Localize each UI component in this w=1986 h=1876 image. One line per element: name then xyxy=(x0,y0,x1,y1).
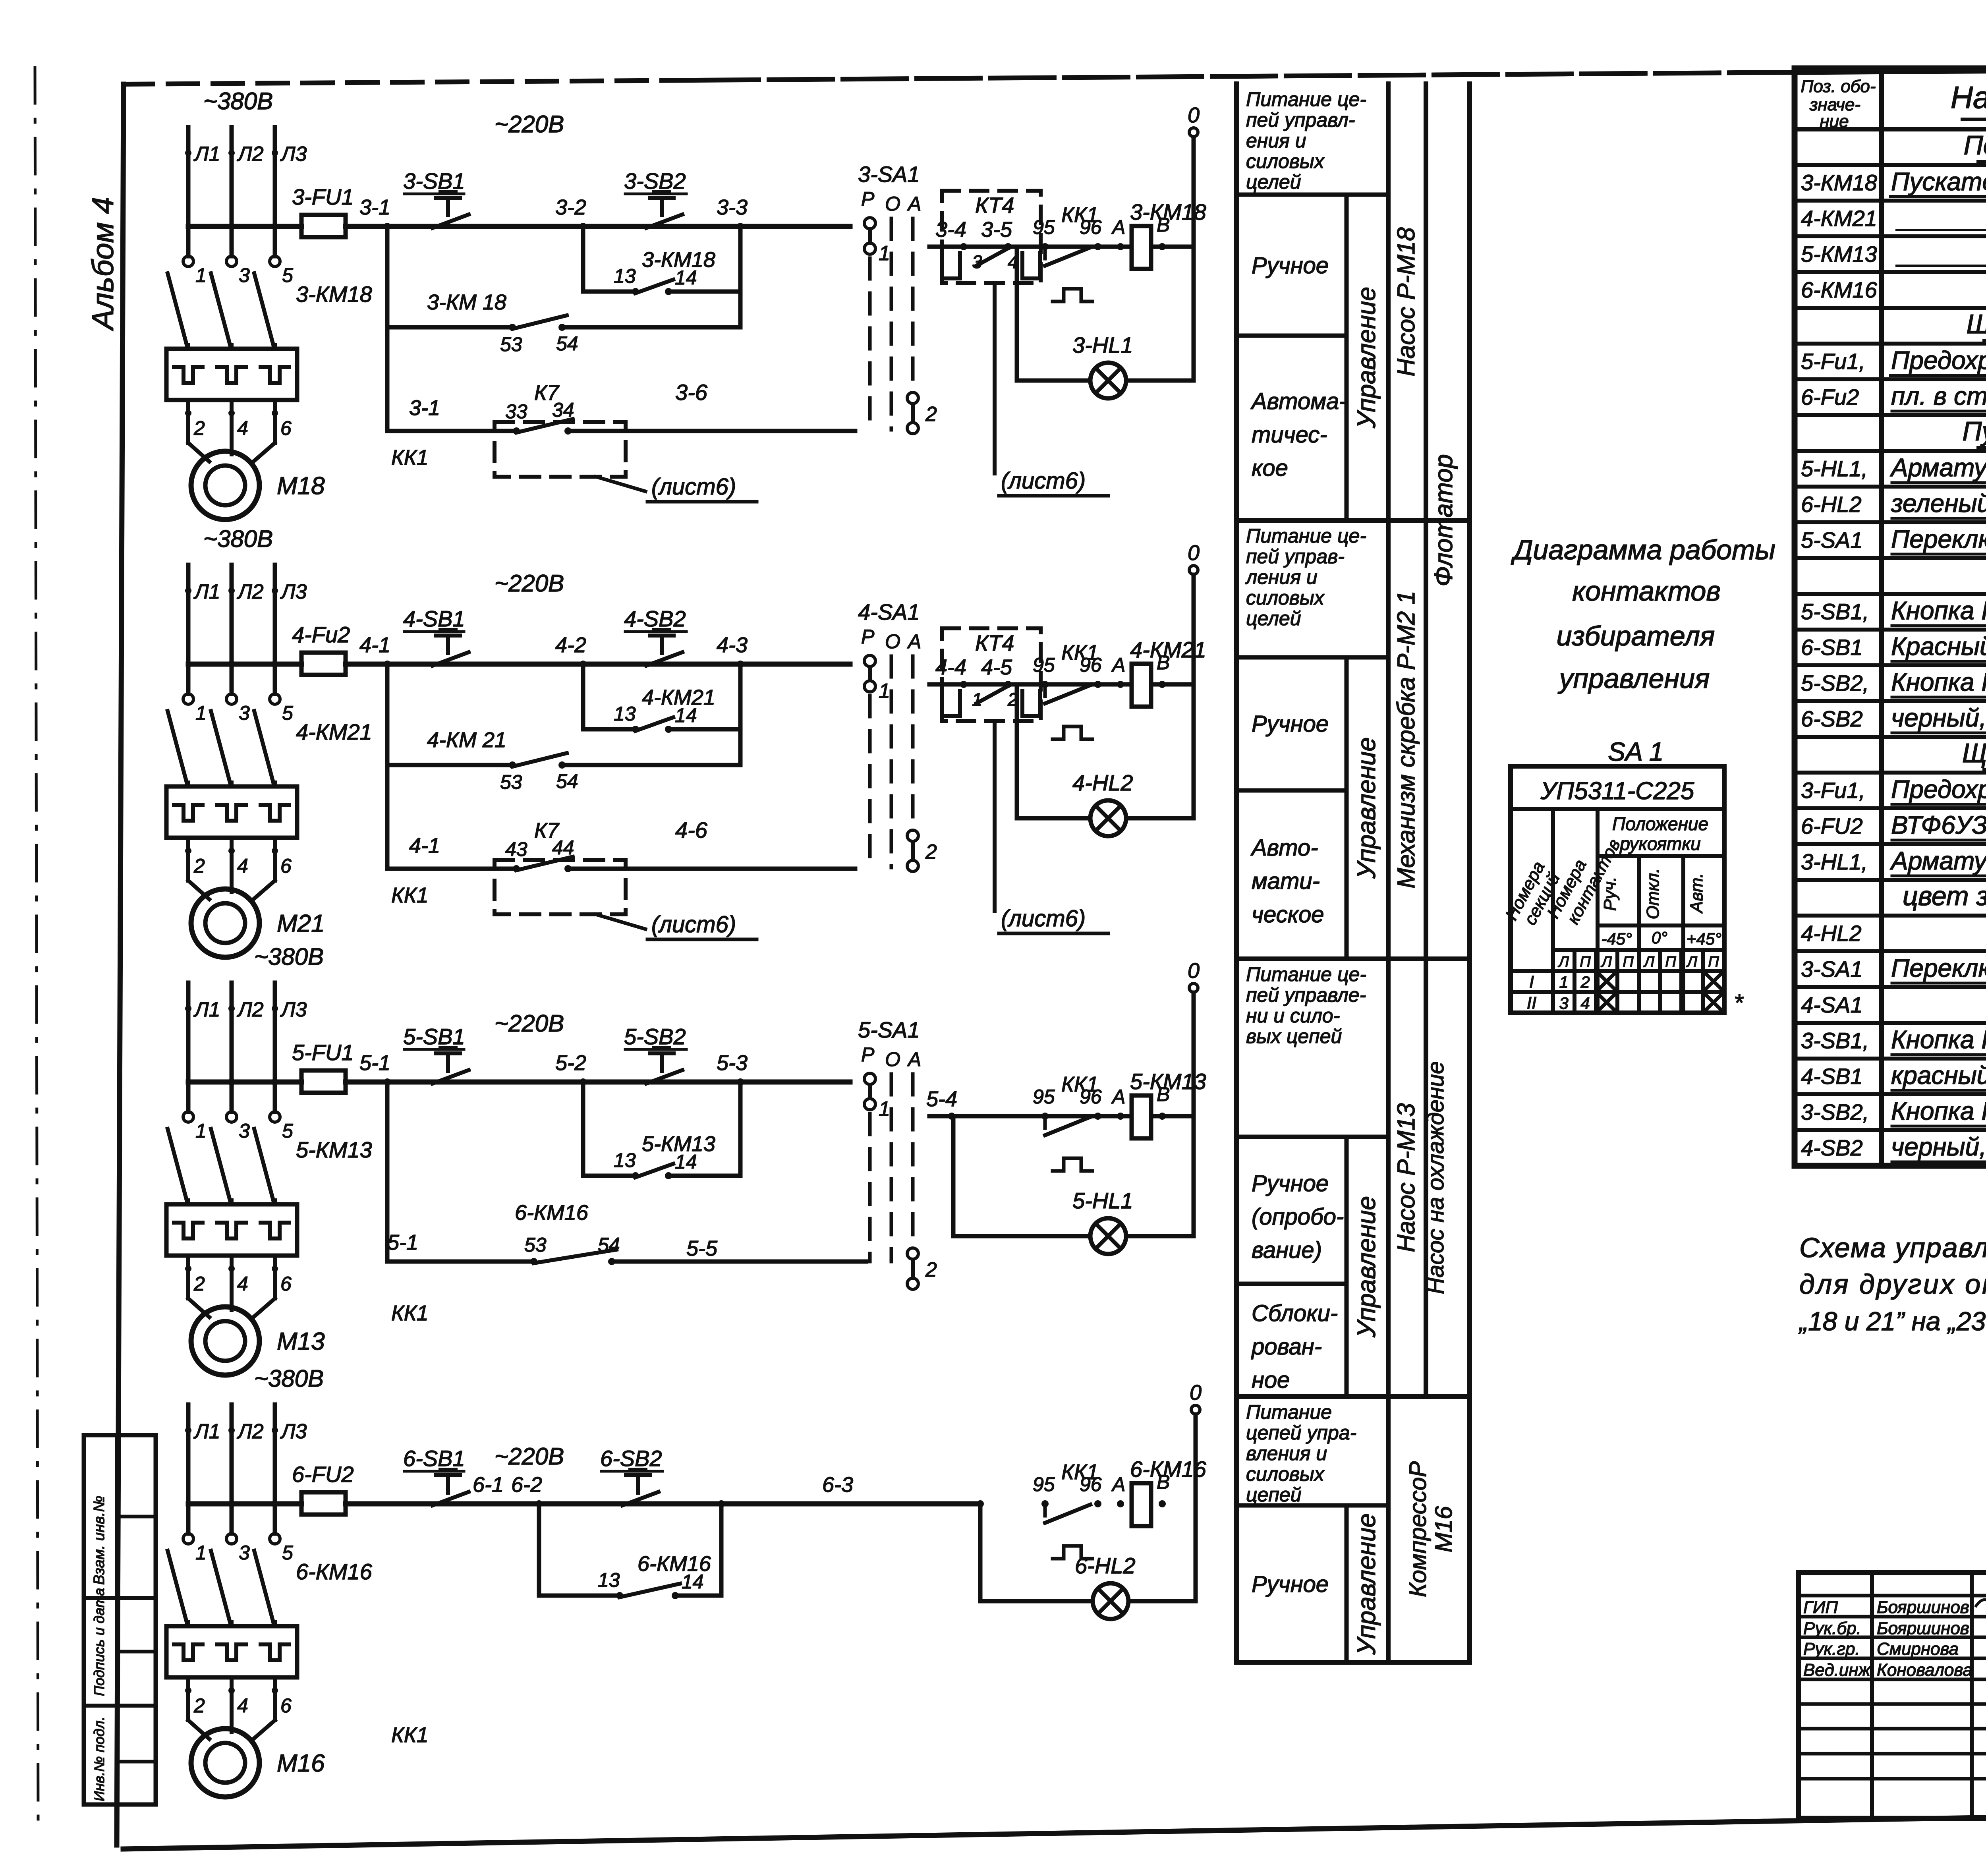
svg-text:5-Fu1,: 5-Fu1, xyxy=(1801,349,1865,374)
svg-text:3-SA1: 3-SA1 xyxy=(858,162,920,187)
svg-text:силовых: силовых xyxy=(1246,587,1325,609)
svg-text:5-SA1: 5-SA1 xyxy=(858,1017,920,1042)
svg-text:Авт.: Авт. xyxy=(1687,873,1706,914)
svg-text:3-КМ18: 3-КМ18 xyxy=(296,282,372,307)
svg-text:ни и сило-: ни и сило- xyxy=(1246,1005,1340,1027)
svg-text:Ручное: Ручное xyxy=(1252,253,1329,278)
svg-text:0°: 0° xyxy=(1652,928,1667,947)
svg-text:(опробо-: (опробо- xyxy=(1252,1204,1344,1230)
svg-text:красный, ТУ16-6У2.015-84: красный, ТУ16-6У2.015-84 xyxy=(1891,1061,1986,1090)
svg-text:А: А xyxy=(907,193,921,215)
svg-text:0: 0 xyxy=(1188,541,1200,565)
svg-text:КК1: КК1 xyxy=(1061,1460,1099,1484)
svg-text:Пускатель магнитный: Пускатель магнитный xyxy=(1891,167,1986,196)
svg-text:5-3: 5-3 xyxy=(717,1051,748,1075)
svg-text:Л: Л xyxy=(1557,954,1569,970)
svg-text:Пульт 1П: Пульт 1П xyxy=(1962,416,1986,446)
svg-text:3-FU1: 3-FU1 xyxy=(292,184,354,209)
svg-text:1: 1 xyxy=(195,702,207,724)
svg-text:(лист6): (лист6) xyxy=(1001,468,1086,494)
svg-text:5-4: 5-4 xyxy=(926,1087,957,1111)
svg-text:2: 2 xyxy=(1580,973,1590,991)
svg-text:(лист6): (лист6) xyxy=(651,912,736,937)
svg-text:КК1: КК1 xyxy=(391,1301,429,1325)
svg-text:Шкаф АS: Шкаф АS xyxy=(1967,309,1986,339)
svg-text:1: 1 xyxy=(195,1120,207,1142)
svg-text:5-КМ13: 5-КМ13 xyxy=(296,1137,372,1162)
svg-text:К7: К7 xyxy=(534,381,560,405)
svg-text:6-2: 6-2 xyxy=(511,1473,542,1497)
svg-text:5: 5 xyxy=(282,702,293,724)
svg-text:М18: М18 xyxy=(277,472,325,500)
svg-text:6-SB1: 6-SB1 xyxy=(403,1446,465,1471)
svg-text:Красный, ТУ 16-642.015-84: Красный, ТУ 16-642.015-84 xyxy=(1891,632,1986,661)
svg-text:О: О xyxy=(885,193,900,215)
svg-text:Насос на охлаждение: Насос на охлаждение xyxy=(1423,1061,1449,1294)
svg-text:14: 14 xyxy=(682,1571,704,1593)
svg-text:6-1: 6-1 xyxy=(473,1473,504,1497)
svg-text:В: В xyxy=(1157,214,1170,236)
svg-text:Коновалова: Коновалова xyxy=(1877,1660,1972,1680)
svg-text:Л3: Л3 xyxy=(280,998,307,1021)
svg-text:5-5: 5-5 xyxy=(686,1236,718,1260)
svg-text:3-5: 3-5 xyxy=(981,218,1012,242)
svg-text:зеленый, ТУ16-535.681-76: зеленый, ТУ16-535.681-76 xyxy=(1891,489,1986,518)
svg-text:Переключатель УП5311-С225УЗ: Переключатель УП5311-С225УЗ xyxy=(1891,954,1986,982)
svg-text:6: 6 xyxy=(280,1694,292,1717)
svg-text:3-HL1,: 3-HL1, xyxy=(1801,849,1868,874)
svg-text:4-6: 4-6 xyxy=(675,817,708,842)
svg-text:Арматура АСЛ11У2, ~220В, цвет: Арматура АСЛ11У2, ~220В, цвет xyxy=(1889,453,1986,482)
svg-text:Предохранитель ППТ-10УЗ,: Предохранитель ППТ-10УЗ, xyxy=(1891,346,1986,375)
svg-text:КомпрессоР: КомпрессоР xyxy=(1404,1461,1431,1597)
svg-text:В: В xyxy=(1157,651,1170,674)
svg-text:5-HL1,: 5-HL1, xyxy=(1801,456,1868,481)
svg-text:6-FU2: 6-FU2 xyxy=(292,1462,354,1487)
svg-text:6-SB2: 6-SB2 xyxy=(1801,706,1863,731)
svg-text:Взам. инв.№: Взам. инв.№ xyxy=(91,1496,108,1585)
svg-text:6: 6 xyxy=(280,417,292,439)
svg-text:6-КМ16: 6-КМ16 xyxy=(1801,277,1878,302)
svg-text:3-4: 3-4 xyxy=(935,218,966,242)
svg-text:Л: Л xyxy=(1686,954,1698,970)
svg-text:3-КМ18: 3-КМ18 xyxy=(1801,170,1877,195)
svg-text:А: А xyxy=(1111,216,1125,238)
svg-text:Л2: Л2 xyxy=(237,1420,264,1443)
svg-text:рукоятки: рукоятки xyxy=(1619,833,1701,854)
svg-text:Л1: Л1 xyxy=(193,998,220,1021)
svg-text:Питание: Питание xyxy=(1246,1401,1332,1423)
svg-text:Смирнова: Смирнова xyxy=(1877,1639,1959,1659)
svg-text:кое: кое xyxy=(1252,455,1288,481)
svg-text:5: 5 xyxy=(282,264,293,286)
svg-text:КК1: КК1 xyxy=(391,883,429,907)
svg-text:цепей: цепей xyxy=(1246,1484,1302,1506)
svg-text:53: 53 xyxy=(500,333,522,355)
svg-text:КК1: КК1 xyxy=(1061,1072,1099,1096)
svg-text:Насос Р-М13: Насос Р-М13 xyxy=(1393,1103,1420,1252)
svg-text:Р: Р xyxy=(861,626,875,648)
svg-text:Л2: Л2 xyxy=(237,580,264,603)
svg-text:3: 3 xyxy=(239,1542,250,1564)
svg-text:5-1: 5-1 xyxy=(359,1051,390,1075)
svg-text:4: 4 xyxy=(237,1273,248,1295)
svg-text:1: 1 xyxy=(879,242,890,265)
svg-text:95: 95 xyxy=(1033,654,1055,676)
svg-text:II: II xyxy=(1527,993,1536,1013)
svg-text:Л2: Л2 xyxy=(237,143,264,166)
svg-text:53: 53 xyxy=(500,771,522,793)
svg-text:Сблоки-: Сблоки- xyxy=(1252,1300,1338,1326)
svg-text:5-SA1: 5-SA1 xyxy=(1801,527,1863,553)
svg-text:4: 4 xyxy=(237,1694,248,1717)
svg-text:Л1: Л1 xyxy=(193,1420,220,1443)
svg-text:4-2: 4-2 xyxy=(555,633,586,657)
svg-text:В: В xyxy=(1157,1083,1170,1105)
svg-text:5-SB1,: 5-SB1, xyxy=(1801,599,1869,624)
svg-text:2: 2 xyxy=(193,855,205,877)
svg-text:Щит ЩУ7: Щит ЩУ7 xyxy=(1962,738,1986,768)
svg-text:„18 и 21” на „23 и 26” и „ 3,4: „18 и 21” на „23 и 26” и „ 3,4” на „14,1… xyxy=(1798,1306,1986,1336)
svg-text:вых цепей: вых цепей xyxy=(1246,1025,1342,1047)
svg-text:5-SB2,: 5-SB2, xyxy=(1801,670,1869,696)
svg-text:2: 2 xyxy=(193,417,205,439)
svg-text:5-HL1: 5-HL1 xyxy=(1072,1188,1133,1213)
svg-text:для других она аналогична с за: для других она аналогична с заменой инде… xyxy=(1799,1269,1986,1300)
svg-text:0: 0 xyxy=(1190,1381,1202,1405)
svg-text:Р: Р xyxy=(861,1043,875,1066)
svg-text:Ручное: Ручное xyxy=(1252,1171,1329,1196)
svg-text:тичес-: тичес- xyxy=(1252,422,1327,448)
svg-text:*: * xyxy=(1734,989,1744,1016)
svg-text:вание): вание) xyxy=(1252,1237,1322,1263)
svg-text:4-КМ21: 4-КМ21 xyxy=(296,719,372,744)
svg-text:черный, ТУ16-642.015-8У: черный, ТУ16-642.015-8У xyxy=(1891,1132,1986,1161)
svg-text:1: 1 xyxy=(195,264,207,286)
svg-text:3: 3 xyxy=(1559,994,1568,1012)
svg-text:6-FU2: 6-FU2 xyxy=(1801,813,1863,839)
svg-text:~380В: ~380В xyxy=(203,88,273,114)
svg-text:3-SB2,: 3-SB2, xyxy=(1801,1099,1869,1124)
svg-text:УП5311-С225: УП5311-С225 xyxy=(1540,777,1694,805)
svg-text:ВТФ6УЗ, ТУ16-521.037-75: ВТФ6УЗ, ТУ16-521.037-75 xyxy=(1891,811,1986,839)
svg-text:контактов: контактов xyxy=(1572,576,1721,607)
svg-text:43: 43 xyxy=(505,838,527,860)
svg-text:+45°: +45° xyxy=(1687,929,1721,948)
svg-text:54: 54 xyxy=(598,1234,620,1256)
svg-text:5: 5 xyxy=(282,1542,293,1564)
svg-text:4: 4 xyxy=(237,417,248,439)
svg-text:14: 14 xyxy=(675,1151,697,1173)
svg-text:~220В: ~220В xyxy=(495,570,564,597)
svg-text:пей управле-: пей управле- xyxy=(1246,984,1366,1006)
svg-text:целей: целей xyxy=(1246,607,1301,630)
svg-text:Бояршинов: Бояршинов xyxy=(1877,1619,1969,1638)
svg-text:Положение: Положение xyxy=(1612,813,1708,834)
svg-text:6-3: 6-3 xyxy=(822,1473,853,1497)
svg-text:4-HL2: 4-HL2 xyxy=(1072,770,1133,795)
svg-text:ГИП: ГИП xyxy=(1803,1598,1838,1617)
svg-text:3: 3 xyxy=(239,702,250,724)
svg-text:95: 95 xyxy=(1033,1086,1055,1108)
svg-text:Л: Л xyxy=(1643,954,1655,970)
svg-text:~220В: ~220В xyxy=(495,111,564,137)
svg-text:3-2: 3-2 xyxy=(555,195,586,219)
svg-text:А: А xyxy=(1111,1086,1125,1108)
svg-text:Автома-: Автома- xyxy=(1250,388,1347,414)
svg-text:54: 54 xyxy=(556,332,578,355)
svg-text:Рук.бр.: Рук.бр. xyxy=(1803,1619,1861,1638)
svg-text:3-SB1,: 3-SB1, xyxy=(1801,1028,1869,1053)
svg-text:3-HL1: 3-HL1 xyxy=(1072,332,1133,357)
svg-text:Л1: Л1 xyxy=(193,143,220,166)
svg-text:Л3: Л3 xyxy=(280,580,307,603)
svg-text:цепей упра-: цепей упра- xyxy=(1246,1422,1356,1444)
svg-text:~380В: ~380В xyxy=(203,526,273,552)
svg-text:Кнопка КЕ011УЗ, исп.4, толкате: Кнопка КЕ011УЗ, исп.4, толкатель xyxy=(1891,668,1986,696)
svg-text:Переключатель УП5311-С225УЗ: Переключатель УП5311-С225УЗ xyxy=(1891,525,1986,553)
svg-text:ние: ние xyxy=(1820,112,1849,131)
svg-text:2: 2 xyxy=(193,1273,205,1295)
svg-text:3-SB1: 3-SB1 xyxy=(403,168,465,193)
svg-text:5-SB2: 5-SB2 xyxy=(624,1024,686,1049)
svg-text:33: 33 xyxy=(505,400,527,423)
svg-text:5: 5 xyxy=(282,1120,293,1142)
svg-text:Наименование: Наименование xyxy=(1951,80,1986,115)
svg-text:М13: М13 xyxy=(277,1328,325,1355)
svg-text:Ручное: Ручное xyxy=(1252,1571,1329,1597)
svg-text:М21: М21 xyxy=(277,910,325,937)
svg-text:Бояршинов: Бояршинов xyxy=(1877,1598,1969,1617)
svg-text:Р: Р xyxy=(861,188,875,210)
svg-text:4-SB2: 4-SB2 xyxy=(1801,1135,1863,1160)
svg-text:13: 13 xyxy=(614,1149,636,1171)
svg-text:Кнопка КЕ011УЗ,исп.4, толкател: Кнопка КЕ011УЗ,исп.4, толкатель xyxy=(1891,1097,1986,1125)
svg-text:3: 3 xyxy=(239,1120,250,1142)
svg-text:КТ4: КТ4 xyxy=(975,630,1014,655)
svg-text:рован-: рован- xyxy=(1251,1334,1322,1360)
svg-text:6-Fu2: 6-Fu2 xyxy=(1801,384,1859,410)
svg-text:53: 53 xyxy=(524,1234,547,1256)
svg-text:Откл.: Откл. xyxy=(1643,868,1663,920)
svg-text:5-1: 5-1 xyxy=(387,1231,418,1254)
svg-text:3-SA1: 3-SA1 xyxy=(1801,956,1863,981)
svg-text:пл. в ст. ВТФ6У 3,ТУ16-521.037: пл. в ст. ВТФ6У 3,ТУ16-521.037-75 xyxy=(1891,382,1986,410)
svg-text:13: 13 xyxy=(614,265,636,287)
svg-text:5-FU1: 5-FU1 xyxy=(292,1040,354,1065)
svg-text:6-HL2: 6-HL2 xyxy=(1801,492,1862,517)
svg-text:4-SB1: 4-SB1 xyxy=(403,606,465,631)
svg-text:Схема управления флотатором вы: Схема управления флотатором выполнена дл… xyxy=(1799,1232,1986,1263)
svg-text:1: 1 xyxy=(195,1542,207,1564)
svg-text:4-SB2: 4-SB2 xyxy=(624,606,686,631)
svg-text:5-2: 5-2 xyxy=(555,1051,586,1075)
svg-text:I: I xyxy=(1529,972,1534,992)
svg-text:Рук.гр.: Рук.гр. xyxy=(1803,1639,1860,1659)
svg-text:3-КМ 18: 3-КМ 18 xyxy=(427,290,506,314)
svg-text:4-Fu2: 4-Fu2 xyxy=(292,622,350,647)
svg-text:6-SB1: 6-SB1 xyxy=(1801,635,1863,660)
svg-text:14: 14 xyxy=(675,704,697,726)
svg-text:4-4: 4-4 xyxy=(935,655,966,679)
svg-text:6: 6 xyxy=(280,855,292,877)
svg-text:3-1: 3-1 xyxy=(409,396,440,420)
svg-text:6-КМ16: 6-КМ16 xyxy=(515,1201,589,1225)
svg-text:Ручное: Ручное xyxy=(1252,711,1329,737)
svg-text:2: 2 xyxy=(925,403,937,426)
svg-text:управления: управления xyxy=(1558,663,1710,694)
svg-text:~380В: ~380В xyxy=(254,1365,324,1392)
svg-text:Управление: Управление xyxy=(1352,287,1381,429)
svg-text:4-SA1: 4-SA1 xyxy=(858,599,920,624)
svg-text:2: 2 xyxy=(925,840,937,864)
svg-text:4-1: 4-1 xyxy=(409,834,440,858)
svg-text:КК1: КК1 xyxy=(391,446,429,469)
svg-text:Л1: Л1 xyxy=(193,580,220,603)
svg-text:0: 0 xyxy=(1188,959,1200,983)
svg-text:3-3: 3-3 xyxy=(717,195,748,219)
svg-text:4-КМ 21: 4-КМ 21 xyxy=(427,728,506,752)
svg-text:ное: ное xyxy=(1252,1367,1290,1393)
svg-text:пей управ-: пей управ- xyxy=(1246,545,1345,568)
svg-text:Питание це-: Питание це- xyxy=(1246,525,1366,547)
svg-text:95: 95 xyxy=(1033,216,1055,238)
svg-text:Вед.инж: Вед.инж xyxy=(1803,1660,1871,1680)
svg-text:Л3: Л3 xyxy=(280,1420,307,1443)
svg-text:Диаграмма работы: Диаграмма работы xyxy=(1511,534,1775,565)
svg-text:М16: М16 xyxy=(277,1750,325,1777)
svg-text:Питание це-: Питание це- xyxy=(1246,963,1366,985)
svg-text:6-КМ16: 6-КМ16 xyxy=(296,1559,373,1584)
svg-text:13: 13 xyxy=(614,703,636,725)
svg-text:Питание це-: Питание це- xyxy=(1246,88,1366,110)
svg-text:Авто-: Авто- xyxy=(1250,835,1318,861)
svg-text:0: 0 xyxy=(1188,103,1200,127)
svg-text:Л3: Л3 xyxy=(280,143,307,166)
svg-text:Предохранитель ППТ-10УЗ,пл. Вс: Предохранитель ППТ-10УЗ,пл. Вст, xyxy=(1891,775,1986,804)
svg-text:ческое: ческое xyxy=(1252,902,1324,927)
svg-text:черный, ТУ16-642,015-84: черный, ТУ16-642,015-84 xyxy=(1891,703,1986,732)
svg-text:Насос Р-М18: Насос Р-М18 xyxy=(1393,227,1420,377)
svg-text:Флотатор: Флотатор xyxy=(1429,454,1458,586)
svg-text:К7: К7 xyxy=(534,819,560,842)
svg-text:3: 3 xyxy=(239,264,250,286)
svg-text:Управление: Управление xyxy=(1352,737,1381,879)
svg-text:95: 95 xyxy=(1033,1473,1055,1495)
svg-text:4-SA1: 4-SA1 xyxy=(1801,992,1863,1017)
svg-text:1: 1 xyxy=(879,1097,890,1121)
svg-text:Кнопка КЕ011УЗ, исп.5, толкате: Кнопка КЕ011УЗ, исп.5, толкатель xyxy=(1891,1025,1986,1054)
svg-text:Управление: Управление xyxy=(1352,1513,1381,1655)
svg-text:А: А xyxy=(1111,654,1125,676)
svg-text:П: П xyxy=(1623,954,1634,970)
svg-text:(лист6): (лист6) xyxy=(651,474,736,500)
svg-text:Управление: Управление xyxy=(1352,1196,1381,1338)
svg-text:силовых: силовых xyxy=(1246,150,1325,172)
svg-text:~380В: ~380В xyxy=(254,943,324,970)
svg-text:По месту: По месту xyxy=(1964,130,1986,160)
svg-text:П: П xyxy=(1708,954,1719,970)
svg-text:Альбом 4: Альбом 4 xyxy=(86,197,120,331)
svg-text:6: 6 xyxy=(280,1273,292,1295)
svg-text:4-SB1: 4-SB1 xyxy=(1801,1064,1863,1089)
svg-text:(лист6): (лист6) xyxy=(1001,906,1086,931)
svg-text:избирателя: избирателя xyxy=(1557,620,1715,651)
svg-text:Подпись и дата: Подпись и дата xyxy=(91,1588,107,1696)
svg-text:целей: целей xyxy=(1246,171,1301,193)
svg-text:О: О xyxy=(885,630,900,653)
svg-text:3-1: 3-1 xyxy=(359,195,390,219)
svg-text:3-6: 3-6 xyxy=(675,380,708,405)
svg-text:В: В xyxy=(1157,1471,1170,1493)
svg-text:4-HL2: 4-HL2 xyxy=(1801,921,1862,946)
svg-text:А: А xyxy=(907,630,921,653)
svg-text:КТ4: КТ4 xyxy=(975,193,1014,218)
svg-text:1: 1 xyxy=(879,680,890,703)
svg-text:П: П xyxy=(1665,954,1676,970)
svg-text:КК1: КК1 xyxy=(1061,203,1099,227)
svg-text:~220В: ~220В xyxy=(495,1443,564,1470)
svg-text:4-5: 4-5 xyxy=(981,655,1012,679)
svg-text:4: 4 xyxy=(237,855,248,877)
svg-text:4-3: 4-3 xyxy=(717,633,748,657)
svg-text:14: 14 xyxy=(675,267,697,289)
svg-text:6-HL2: 6-HL2 xyxy=(1075,1553,1136,1578)
svg-text:Л: Л xyxy=(1600,954,1612,970)
svg-text:Л2: Л2 xyxy=(237,998,264,1021)
svg-text:SA 1: SA 1 xyxy=(1608,737,1664,766)
svg-text:КК1: КК1 xyxy=(391,1723,429,1747)
svg-text:6-SB2: 6-SB2 xyxy=(600,1446,662,1471)
svg-text:ления и: ления и xyxy=(1245,566,1318,588)
svg-text:1: 1 xyxy=(1559,973,1568,991)
svg-text:КК1: КК1 xyxy=(1061,641,1099,665)
svg-text:ения и: ения и xyxy=(1246,129,1306,152)
svg-text:А: А xyxy=(907,1048,921,1070)
svg-text:3-Fu1,: 3-Fu1, xyxy=(1801,778,1865,803)
svg-text:силовых: силовых xyxy=(1246,1463,1325,1485)
svg-text:М16: М16 xyxy=(1430,1506,1457,1552)
svg-text:2: 2 xyxy=(925,1258,937,1281)
svg-text:54: 54 xyxy=(556,770,578,792)
svg-text:5-КМ13: 5-КМ13 xyxy=(1801,242,1877,267)
svg-text:вления и: вления и xyxy=(1246,1442,1327,1464)
svg-text:О: О xyxy=(885,1048,900,1070)
svg-text:Инв.№ подл.: Инв.№ подл. xyxy=(91,1717,107,1801)
svg-text:Кнопка КЕ011УЗ, исп. 5, толкат: Кнопка КЕ011УЗ, исп. 5, толкатель xyxy=(1891,596,1986,625)
svg-text:Поз. обо-: Поз. обо- xyxy=(1801,77,1876,96)
svg-text:Механизм скребка Р-М2 1: Механизм скребка Р-М2 1 xyxy=(1393,591,1420,889)
svg-text:3-SB2: 3-SB2 xyxy=(624,168,686,193)
svg-text:цвет зеленый: цвет зеленый xyxy=(1903,881,1986,911)
svg-text:А: А xyxy=(1111,1473,1125,1495)
svg-text:мати-: мати- xyxy=(1252,868,1320,894)
svg-text:~220В: ~220В xyxy=(495,1010,564,1037)
svg-text:пей управл-: пей управл- xyxy=(1246,109,1355,131)
svg-text:13: 13 xyxy=(598,1569,620,1591)
svg-text:П: П xyxy=(1580,954,1591,970)
svg-text:4: 4 xyxy=(1580,994,1590,1012)
svg-text:5-SB1: 5-SB1 xyxy=(403,1024,465,1049)
svg-text:4-1: 4-1 xyxy=(359,633,390,657)
svg-text:4-КМ21: 4-КМ21 xyxy=(1801,206,1877,231)
svg-text:-45°: -45° xyxy=(1601,929,1632,948)
svg-text:2: 2 xyxy=(193,1694,205,1717)
svg-text:Арматура АСЛ11У2, ~220В,: Арматура АСЛ11У2, ~220В, xyxy=(1889,846,1986,875)
